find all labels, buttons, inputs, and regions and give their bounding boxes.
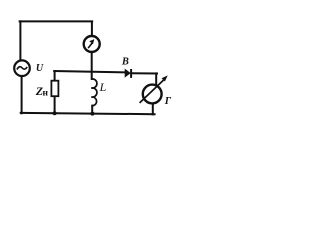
svg-text:н: н xyxy=(43,88,49,98)
wire meter to junction and coil top xyxy=(91,52,93,79)
source G1 (AC source U) xyxy=(14,60,30,76)
meter P1 (indicator instrument) xyxy=(84,36,100,52)
inductor L (coil) xyxy=(91,79,97,106)
wire resistor bottom stub xyxy=(54,96,56,113)
resistor Zн (load box) xyxy=(51,81,58,97)
junction node inductor-bottom xyxy=(90,112,94,116)
wire middle bus right of diode xyxy=(132,72,157,74)
wire bottom bus xyxy=(21,113,155,114)
svg-text:L: L xyxy=(99,80,107,94)
svg-text:В: В xyxy=(121,57,129,68)
svg-text:Г: Г xyxy=(164,96,172,107)
generator Г (variable) xyxy=(140,75,168,103)
wire meter branch vertical xyxy=(91,22,93,36)
diode VD (В) xyxy=(125,69,131,78)
wire generator bottom stub xyxy=(152,103,154,114)
wire resistor top stub xyxy=(54,72,56,81)
wire inductor bottom stub xyxy=(91,106,93,114)
wire middle bus left xyxy=(54,71,125,72)
wire right loop down to generator xyxy=(155,73,157,85)
wire top bus xyxy=(20,20,93,22)
wire left vertical upper xyxy=(19,21,21,60)
junction node resistor-bottom xyxy=(53,111,57,115)
svg-text:U: U xyxy=(36,63,44,74)
wire left vertical lower xyxy=(21,76,23,113)
